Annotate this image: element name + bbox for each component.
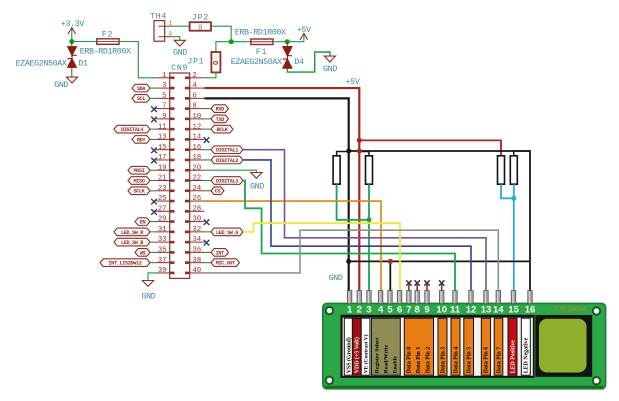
svg-text:36: 36: [193, 246, 202, 254]
svg-text:WS: WS: [140, 250, 146, 256]
svg-text:Data Pin 7: Data Pin 7: [496, 347, 502, 374]
no-connect mark CN9 pin 17: [151, 158, 157, 164]
svg-text:F2: F2: [102, 30, 113, 39]
wire and net label CS (CN9 pin 24): [205, 187, 225, 195]
svg-text:31: 31: [158, 226, 167, 234]
LCD pin 8 pad: [415, 291, 419, 304]
wire R3 bottom to LED positive node: [501, 184, 514, 198]
CN9 pin 17: [156, 154, 175, 162]
wire LED positive node to LCD pin 15: [513, 184, 515, 290]
svg-text:25: 25: [158, 195, 167, 203]
LCD pin 3 pad: [367, 291, 371, 304]
ground symbol below CN9 pin 39: [142, 281, 156, 302]
svg-text:12: 12: [193, 123, 202, 131]
no-connect stub LCD pin 8: [415, 280, 420, 290]
svg-text:12: 12: [466, 305, 477, 316]
svg-text:7: 7: [406, 305, 411, 316]
wire and net label INT_LIS2DW12 (CN9 pin 37): [100, 259, 156, 267]
svg-text:GND: GND: [54, 80, 68, 90]
svg-text:DIGITAL4: DIGITAL4: [121, 127, 143, 133]
CN9 pin 29: [156, 216, 175, 224]
svg-text:6: 6: [397, 305, 402, 316]
wire GND: CN9 pin 6 to LCD pin 1 (VSS): [205, 98, 349, 290]
CN9 pin 23: [156, 185, 175, 193]
svg-text:VDD (+5 Volt): VDD (+5 Volt): [354, 337, 361, 373]
svg-text:8: 8: [193, 103, 197, 111]
svg-text:5: 5: [387, 305, 393, 316]
no-connect mark CN9 pin 30: [204, 219, 210, 225]
resistor R3 (LED, from +5V): [498, 156, 505, 184]
CN9 pin 15: [156, 144, 175, 152]
no-connect mark CN9 pin 14: [204, 137, 210, 143]
svg-text:2: 2: [193, 72, 197, 80]
no-connect mark CN9 pin 7: [151, 106, 157, 112]
wire contrast node to LCD pin 3 (VE): [368, 184, 370, 290]
svg-text:23: 23: [158, 185, 167, 193]
svg-text:19: 19: [158, 164, 167, 172]
wire F1 to +5V node: [273, 41, 287, 43]
CN9 pin 3: [156, 82, 175, 90]
svg-text:BCLK: BCLK: [216, 127, 228, 133]
svg-text:DIGITAL2: DIGITAL2: [216, 158, 238, 164]
LCD pin 10 pad: [440, 291, 444, 304]
wire and net label SCL (CN9 pin 5): [132, 95, 156, 103]
svg-text:Data Pin 5: Data Pin 5: [467, 347, 473, 374]
fuse F1 value ERB-RD1R00X: [235, 28, 286, 58]
junction node +3.3V: [69, 39, 74, 44]
svg-text:40: 40: [193, 267, 202, 275]
CN9 pin 4: [185, 82, 205, 90]
svg-text:GND: GND: [173, 48, 187, 58]
svg-text:10: 10: [436, 305, 447, 316]
svg-text:20: 20: [193, 164, 202, 172]
wire GND rail to LCD pin 5 (Read/Write): [389, 261, 391, 290]
LCD pin 13 pad: [484, 291, 488, 304]
CN9 pin 1: [156, 72, 175, 80]
svg-text:EZAEG2N50AX: EZAEG2N50AX: [231, 57, 282, 67]
svg-text:ERB-RD1R00X: ERB-RD1R00X: [235, 28, 286, 38]
svg-text:EN: EN: [140, 219, 146, 225]
wire junction to JP1: [216, 42, 231, 52]
svg-text:26: 26: [193, 195, 202, 203]
CN9 pin 5: [156, 92, 175, 100]
wire and net label LED_SW_R (CN9 pin 31): [114, 228, 156, 236]
wire and net label SCLK (CN9 pin 23): [128, 187, 156, 195]
svg-text:CS: CS: [215, 189, 221, 195]
LCD label panel: [341, 315, 535, 378]
svg-text:17: 17: [158, 154, 167, 162]
svg-text:VSS (Ground): VSS (Ground): [345, 337, 352, 373]
svg-text:37: 37: [158, 257, 167, 265]
junction node R2/+5V: [357, 149, 362, 154]
CN9 pin 18: [185, 154, 205, 162]
svg-text:LED Positive: LED Positive: [510, 340, 516, 374]
CN9 pin 20: [185, 164, 205, 172]
LCD label Data Pin 6: [481, 318, 490, 375]
wire +5V: CN9 pin 4 to LCD pin 2 (VDD): [205, 88, 360, 291]
CN9 pin 12: [185, 123, 205, 131]
svg-text:Data Pin 3: Data Pin 3: [440, 347, 446, 374]
wire and net label WS (CN9 pin 35): [135, 249, 156, 257]
svg-text:LED Negative: LED Negative: [524, 337, 530, 373]
LCD label VE (Contrast V): [361, 318, 370, 375]
svg-text:4: 4: [193, 82, 197, 90]
CN9 pin 27: [156, 205, 175, 213]
svg-text:GND: GND: [329, 273, 343, 283]
svg-text:EZAEG2N50AX: EZAEG2N50AX: [16, 58, 67, 68]
connector CN9 body: [170, 64, 190, 278]
CN9 pin 34: [185, 236, 205, 244]
svg-text:RXD: RXD: [216, 107, 225, 113]
CN9 pin 9: [156, 113, 175, 121]
junction node +5V/R3: [357, 138, 362, 143]
CN9 pin 14: [185, 134, 205, 142]
wire F2 to CN9 pin 1: [119, 42, 156, 78]
LCD label Data Pin 5: [464, 318, 474, 375]
CN9 pin 22: [185, 175, 205, 183]
CN9 pin 35: [156, 246, 175, 254]
LCD pin 12 pad: [469, 291, 473, 304]
svg-text:Data Pin 6: Data Pin 6: [484, 347, 490, 374]
CN9 pin 28: [185, 205, 205, 213]
wire and net label MOSI (CN9 pin 19): [128, 166, 156, 174]
svg-text:9: 9: [424, 305, 429, 316]
LCD labels Data Pin 0-2: [404, 318, 433, 375]
CN9 pin 10: [185, 113, 205, 121]
wire and net label MISO (CN9 pin 21): [128, 177, 156, 185]
svg-text:2: 2: [357, 305, 362, 316]
svg-text:18: 18: [193, 154, 202, 162]
wire +5V branch to resistor R3: [359, 140, 501, 155]
ground symbol right of D4: [323, 56, 337, 74]
svg-text:LED_SW_R: LED_SW_R: [121, 230, 144, 236]
resistor R2 (contrast, to +5V): [359, 152, 372, 185]
CN9 pin 33: [156, 236, 175, 244]
wire CN9 pin 39 to ground: [148, 273, 156, 281]
svg-text:34: 34: [193, 236, 202, 244]
LCD pin 7 pad: [407, 291, 411, 304]
CN9 pin 13: [156, 134, 175, 142]
svg-text:15: 15: [508, 305, 519, 316]
svg-text:30: 30: [193, 216, 202, 224]
connector TH4: [150, 13, 173, 42]
svg-text:3: 3: [366, 305, 371, 316]
svg-text:Register Select: Register Select: [374, 337, 380, 373]
LCD label LED Positive: [508, 318, 517, 375]
LCD pin 11 pad: [453, 291, 457, 304]
CN9 pin 26: [185, 195, 205, 203]
svg-text:+5V: +5V: [346, 77, 360, 87]
svg-text:TXD: TXD: [216, 117, 225, 123]
junction node GND/R1: [346, 149, 351, 154]
LCD label Data Pin 3: [438, 318, 447, 375]
wire R1 bottom to contrast node: [337, 184, 369, 220]
jumper JP1: [187, 52, 220, 72]
svg-text:39: 39: [158, 267, 167, 275]
svg-text:D4: D4: [294, 57, 304, 67]
svg-text:9: 9: [162, 113, 166, 121]
svg-text:Data Pin 4: Data Pin 4: [453, 347, 459, 374]
wire junction to fuse F1: [231, 41, 251, 43]
no-connect mark CN9 pin 27: [151, 209, 157, 215]
wire net of CN9 pin 26 to LCD pin 4 (Register Select): [205, 201, 382, 291]
junction node VE contrast: [367, 217, 372, 222]
svg-text:14: 14: [493, 305, 504, 316]
LCD label Data Pin 4: [451, 318, 460, 375]
fuse F2 value ERB-RD1R00X: [80, 30, 131, 56]
wire GND rail to LCD pins 1/5 area: [349, 260, 530, 262]
svg-text:15: 15: [158, 144, 167, 152]
svg-text:RDY: RDY: [137, 137, 147, 143]
LCD label Data Pin 7: [494, 318, 503, 375]
svg-text:14: 14: [193, 134, 202, 142]
CN9 pin 32: [185, 226, 205, 234]
svg-text:11: 11: [450, 305, 461, 316]
svg-text:MIC_OUT: MIC_OUT: [216, 261, 236, 267]
wire and net label BCLK (CN9 pin 12): [205, 125, 234, 133]
no-connect mark CN9 pin 34: [204, 240, 210, 246]
LCD screen: [535, 315, 592, 377]
svg-text:Enable: Enable: [392, 356, 398, 374]
svg-text:+5V: +5V: [297, 25, 311, 35]
svg-text:GND: GND: [250, 182, 264, 192]
wire DIGITAL2: CN9 pin 18 to LCD pin 12: [243, 160, 471, 291]
svg-text:13: 13: [481, 305, 492, 316]
svg-text:LED_SW_G: LED_SW_G: [216, 230, 238, 236]
svg-text:Data Pin 1: Data Pin 1: [416, 347, 422, 374]
LCD pin 1 pad: [347, 291, 351, 304]
svg-text:ERB-RD1R00X: ERB-RD1R00X: [80, 46, 131, 56]
CN9 pin 2: [185, 72, 205, 80]
LCD pin 4 pad: [378, 291, 382, 304]
wire and net label SDA (CN9 pin 3): [132, 84, 156, 92]
svg-text:11: 11: [158, 123, 167, 131]
no-connect stub LCD pin 9: [424, 280, 429, 290]
wire JP2 to +5V junction: [211, 26, 231, 42]
wire +3.3V to fuse F2: [72, 41, 97, 43]
svg-text:Data Pin 0: Data Pin 0: [407, 347, 413, 374]
svg-text:INT: INT: [216, 250, 225, 256]
LCD pin 15 pad: [511, 291, 515, 304]
svg-text:8: 8: [415, 305, 420, 316]
svg-text:MISO: MISO: [133, 178, 144, 184]
junction node at D4: [285, 39, 290, 44]
svg-text:SCLK: SCLK: [133, 189, 145, 195]
svg-text:F1: F1: [256, 48, 267, 57]
svg-text:JP1: JP1: [187, 57, 204, 66]
svg-text:SDA: SDA: [137, 86, 147, 92]
svg-text:5: 5: [162, 92, 166, 100]
wire and net label TXD (CN9 pin 10): [205, 115, 229, 123]
ground symbol below D1: [54, 68, 77, 91]
resistor R1 (contrast, to GND): [333, 152, 349, 185]
svg-text:D1: D1: [78, 58, 88, 68]
TVS diode D4 EZAEG2N50AX: [231, 42, 304, 69]
svg-text:33: 33: [158, 236, 167, 244]
resistor R4 (LED, from GND rail): [510, 151, 530, 184]
resistor JP2 value 0: [190, 14, 211, 33]
svg-text:Data Pin 2: Data Pin 2: [426, 347, 432, 374]
junction node GND rail / RW (red dot): [388, 259, 393, 264]
svg-text:16: 16: [525, 305, 536, 316]
CN9 pin 36: [185, 246, 205, 254]
wire and net label INT (CN9 pin 36): [205, 249, 229, 257]
wire DIGITAL3: CN9 pin 22 to LCD pin 11: [243, 181, 455, 291]
svg-text:1: 1: [169, 21, 172, 27]
LCD label VSS (Ground): [344, 318, 352, 375]
power symbol +3.3V: [61, 19, 85, 42]
svg-text:DIGITAL3: DIGITAL3: [216, 178, 238, 184]
wire and net label DIGITAL4 (CN9 pin 11): [114, 125, 156, 133]
svg-text:6: 6: [193, 92, 197, 100]
wire and net label DIGITAL2 (CN9 pin 18): [205, 156, 244, 164]
wire and net label RDY (CN9 pin 13): [132, 136, 156, 144]
no-connect mark CN9 pin 25: [151, 199, 157, 205]
svg-text:2: 2: [169, 31, 172, 37]
svg-text:CN9: CN9: [171, 64, 188, 73]
wire CN9 pin 20 to ground: [205, 170, 257, 172]
svg-text:22: 22: [193, 175, 202, 183]
svg-text:38: 38: [193, 257, 202, 265]
CN9 pin 39: [156, 267, 175, 275]
wire and net label RXD (CN9 pin 8): [205, 105, 229, 113]
svg-text:INT_LIS2DW12: INT_LIS2DW12: [108, 261, 141, 267]
LCD pin 16 pad: [528, 291, 532, 304]
CN9 pin 25: [156, 195, 175, 203]
LCD pin 5 pad: [388, 291, 392, 304]
wire and net label EN (CN9 pin 29): [135, 218, 156, 226]
LCD labels Register Select / Read/Write / Enable: [371, 318, 400, 375]
no-connect mark CN9 pin 9: [151, 117, 157, 123]
LCD pin 6 pad: [397, 291, 401, 304]
svg-text:1: 1: [162, 72, 166, 80]
svg-text:27: 27: [158, 205, 167, 213]
wire GND rail to LCD pin 16 (LED negative): [349, 151, 530, 291]
svg-text:16: 16: [193, 144, 202, 152]
wire and net label DIGITAL1 (CN9 pin 16): [205, 146, 244, 154]
wire TH4 pin 1 to JP2: [173, 25, 190, 27]
wire and net label LED_SW_G (CN9 pin 32): [205, 228, 244, 236]
wire net of CN9 pin 40 to LCD pin 14: [205, 230, 499, 290]
svg-text:GND: GND: [142, 292, 156, 302]
svg-text:29: 29: [158, 216, 167, 224]
wire and net label MIC_OUT (CN9 pin 38): [205, 259, 240, 267]
CN9 pin 37: [156, 257, 175, 265]
CN9 pin 31: [156, 226, 175, 234]
svg-text:4: 4: [378, 305, 384, 316]
svg-text:0: 0: [198, 24, 202, 32]
CN9 pin 6: [185, 92, 205, 100]
wire and net label LED_SW_B (CN9 pin 33): [114, 238, 156, 246]
svg-text:3: 3: [162, 82, 166, 90]
svg-text:DIGITAL1: DIGITAL1: [216, 148, 238, 154]
ground symbol below TH4 pin 2: [173, 37, 187, 58]
CN9 pin 21: [156, 175, 175, 183]
svg-text:28: 28: [193, 205, 202, 213]
LCD pin 9 pad: [425, 291, 429, 304]
power symbol +5V (top middle): [287, 25, 311, 42]
svg-text:13: 13: [158, 134, 167, 142]
no-connect stub LCD pin 7: [406, 280, 411, 290]
svg-text:24: 24: [193, 185, 202, 193]
svg-text:10: 10: [193, 113, 202, 121]
LCD module YJD 1602A: [323, 303, 606, 388]
svg-text:35: 35: [158, 246, 167, 254]
junction node at F1/JP1: [229, 39, 234, 44]
LCD pin 2 pad: [357, 291, 361, 304]
LCD pin 14 pad: [496, 291, 500, 304]
CN9 pin 11: [156, 123, 175, 131]
junction node GND rail / VSS: [346, 259, 351, 264]
wire JP1 to CN9 pin 2: [205, 72, 216, 78]
LCD mounting holes: [326, 307, 601, 385]
svg-text:7: 7: [162, 103, 166, 111]
CN9 pin 38: [185, 257, 205, 265]
svg-text:YJD 1602A: YJD 1602A: [554, 306, 587, 313]
wire and net label DIGITAL3 (CN9 pin 22): [205, 177, 244, 185]
CN9 pin 7: [156, 103, 175, 111]
CN9 pin 30: [185, 216, 205, 224]
svg-text:1: 1: [347, 305, 353, 316]
LCD label LED Negative: [521, 318, 530, 375]
svg-text:SCL: SCL: [137, 96, 146, 102]
CN9 pin 24: [185, 185, 205, 193]
svg-text:MOSI: MOSI: [133, 168, 144, 174]
svg-text:VE (Contrast V): VE (Contrast V): [362, 334, 369, 373]
svg-text:JP2: JP2: [192, 14, 209, 23]
wire LED_SW_G: CN9 pin 32 to LCD pin 6 (Enable): [243, 223, 400, 290]
ground symbol below CN9 pin 20: [250, 173, 264, 192]
CN9 pin 16: [185, 144, 205, 152]
wire DIGITAL1: CN9 pin 16 to LCD pin 13: [243, 150, 486, 291]
wire D4 to ground: [287, 52, 330, 72]
junction node LED positive: [511, 196, 516, 201]
svg-text:Read/Write: Read/Write: [383, 344, 389, 373]
no-connect mark CN9 pin 15: [151, 147, 157, 153]
svg-text:LED_SW_B: LED_SW_B: [121, 240, 143, 246]
LCD label VDD (+5 Volt): [352, 318, 361, 375]
svg-text:21: 21: [158, 175, 167, 183]
svg-text:32: 32: [193, 226, 202, 234]
CN9 pin 8: [185, 103, 205, 111]
CN9 pin 40: [185, 267, 205, 275]
TVS diode D1 EZAEG2N50AX: [16, 42, 88, 69]
CN9 pin 19: [156, 164, 175, 172]
svg-text:+3.3V: +3.3V: [61, 19, 85, 29]
no-connect stub LCD pin 10: [439, 280, 444, 290]
svg-text:GND: GND: [323, 64, 337, 74]
